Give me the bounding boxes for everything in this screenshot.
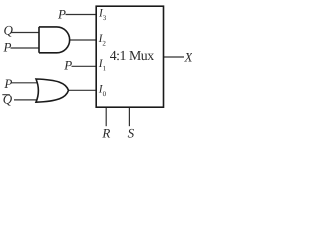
svg-text:R: R — [101, 125, 110, 140]
label Qbar overline — [2, 94, 10, 96]
svg-text:1: 1 — [103, 65, 107, 73]
wire P to I3 — [66, 14, 97, 16]
wire X output — [164, 56, 185, 58]
svg-text:Q: Q — [3, 92, 13, 107]
wire R select — [105, 107, 107, 126]
svg-text:2: 2 — [102, 40, 106, 48]
wire OR output to I0 — [67, 89, 96, 91]
wire S select — [128, 107, 130, 126]
svg-text:P: P — [57, 6, 66, 21]
mux box U1 — [96, 6, 163, 107]
wire AND output to I2 — [68, 39, 96, 41]
svg-text:P: P — [3, 76, 12, 91]
svg-text:3: 3 — [103, 14, 107, 22]
OR gate — [36, 79, 69, 102]
svg-text:P: P — [3, 40, 12, 55]
wire P to OR input — [11, 82, 40, 84]
wire Q to AND input — [11, 32, 40, 34]
svg-text:P: P — [63, 58, 72, 73]
svg-text:4:1 Mux: 4:1 Mux — [110, 48, 155, 63]
AND gate — [39, 27, 70, 53]
svg-text:S: S — [128, 125, 135, 140]
svg-text:0: 0 — [103, 90, 107, 98]
wire P to AND input — [11, 47, 40, 49]
wire P to I1 — [72, 65, 97, 67]
wire Qbar to OR input — [14, 99, 40, 101]
svg-text:Q: Q — [4, 23, 14, 38]
svg-text:X: X — [184, 50, 193, 65]
